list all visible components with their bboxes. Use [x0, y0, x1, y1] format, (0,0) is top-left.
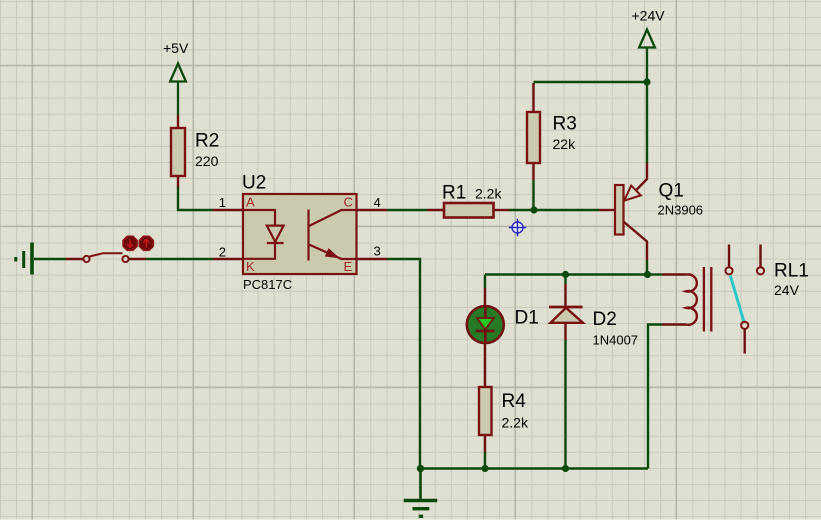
wire relay node row — [485, 273, 648, 275]
U2 pin 1 stub — [213, 209, 243, 211]
ground (left, rotated) — [16, 243, 32, 275]
junction node (ground) — [417, 465, 424, 472]
junction node (R4/rail) — [481, 465, 488, 472]
wire switch to U2 pin 2 — [146, 258, 213, 260]
interactive toggle button (up) — [139, 236, 153, 250]
svg-text:K: K — [246, 259, 255, 274]
svg-text:220: 220 — [195, 153, 219, 169]
switch SW1 right pin — [129, 258, 146, 260]
power +24V arrow — [639, 30, 655, 83]
origin marker (blue crosshair) — [509, 219, 526, 236]
resistor R2 — [171, 128, 185, 176]
relay RL1 common contact — [725, 267, 732, 274]
svg-text:1N4007: 1N4007 — [593, 333, 639, 348]
svg-text:RL1: RL1 — [774, 261, 809, 282]
wire D2 to ground rail — [564, 340, 566, 469]
LED D1 bottom pin to R4 — [484, 342, 486, 387]
relay RL1 core — [704, 267, 711, 332]
U2 pin 4 stub — [357, 209, 388, 211]
transistor Q1 emitter pin — [636, 163, 647, 190]
relay RL1 coil bottom pin — [662, 323, 686, 325]
resistor R1 right pin — [494, 209, 510, 211]
U2 internal phototransistor — [309, 210, 356, 261]
U2 pin 2 stub — [213, 258, 243, 260]
svg-text:2.2k: 2.2k — [502, 415, 529, 431]
relay RL1 moving contact pin — [744, 329, 746, 353]
wire rail up to relay coil — [648, 325, 662, 469]
svg-text:U2: U2 — [242, 173, 266, 194]
junction node (D2/rail) — [562, 465, 569, 472]
resistor R3 bottom pin — [532, 163, 534, 180]
svg-text:2: 2 — [219, 245, 226, 260]
svg-text:R1: R1 — [442, 183, 466, 204]
op-isolator U2 body — [243, 194, 357, 274]
svg-text:1: 1 — [219, 195, 226, 210]
svg-text:4: 4 — [374, 195, 381, 210]
ground symbol — [404, 469, 437, 517]
svg-text:R2: R2 — [195, 131, 219, 152]
svg-text:+5V: +5V — [163, 40, 189, 56]
junction node (D2 top) — [562, 271, 569, 278]
diode D2 — [549, 307, 583, 323]
wire ground to switch — [34, 258, 66, 260]
resistor R1 left pin — [427, 209, 444, 211]
resistor R2 bottom pin — [177, 176, 179, 188]
relay RL1 coil — [686, 274, 697, 324]
transistor Q1 collector pin — [624, 222, 647, 260]
wire R1 to base node — [509, 209, 599, 211]
svg-text:+24V: +24V — [632, 8, 666, 24]
wire U2 pin 3 to left vertical — [387, 259, 420, 469]
relay RL1 moving blade — [730, 276, 744, 322]
diode D2 bottom pin — [564, 324, 566, 340]
resistor R1 — [444, 203, 494, 218]
resistor R3 top pin — [532, 83, 534, 112]
svg-text:D1: D1 — [515, 308, 539, 329]
LED D1 top pin — [484, 288, 486, 306]
svg-text:Q1: Q1 — [659, 181, 684, 202]
svg-text:2N3906: 2N3906 — [658, 203, 704, 218]
junction node (relay coil top) — [644, 271, 651, 278]
wire U2 pin 4 to R1 — [387, 209, 427, 211]
junction node (R3/base) — [530, 206, 537, 213]
relay RL1 NO contact — [757, 267, 764, 274]
resistor R4 — [479, 387, 492, 435]
wire rail down to Q1 emitter — [646, 82, 648, 163]
ground rail (bottom) — [420, 467, 648, 469]
resistor R3 — [527, 112, 540, 163]
resistor R4 bottom pin — [484, 435, 486, 452]
junction node (+24V rail) — [643, 78, 650, 85]
relay RL1 common contact pin — [728, 245, 730, 268]
svg-text:E: E — [344, 259, 353, 274]
U2 internal LED — [244, 210, 284, 259]
U2 pin 3 stub — [357, 258, 388, 260]
relay RL1 moving contact — [741, 322, 748, 329]
wire R3 to base node — [532, 180, 534, 210]
wire R4 to ground rail — [484, 452, 486, 469]
svg-text:PC817C: PC817C — [243, 277, 292, 292]
wire Q1 collector to relay node — [646, 260, 648, 275]
svg-text:22k: 22k — [553, 136, 577, 152]
switch SW1 — [83, 253, 128, 262]
svg-text:R3: R3 — [553, 114, 577, 135]
wire node to D1 — [484, 275, 486, 289]
Q1 base pin stub — [599, 209, 615, 211]
transistor Q1 emitter arrow — [624, 186, 641, 201]
svg-text:R4: R4 — [502, 391, 527, 412]
wire +24V rail to R3 — [534, 81, 648, 83]
wire R2 to U2 pin 1 — [178, 187, 213, 210]
relay RL1 NO contact pin — [759, 245, 761, 268]
svg-text:3: 3 — [374, 244, 381, 259]
svg-text:A: A — [246, 195, 255, 210]
svg-text:D2: D2 — [593, 309, 617, 330]
resistor R2 top pin — [177, 115, 179, 128]
svg-text:2.2k: 2.2k — [475, 186, 502, 202]
relay RL1 coil top pin — [648, 273, 662, 275]
svg-text:C: C — [344, 195, 353, 210]
svg-text:24V: 24V — [774, 282, 800, 298]
interactive toggle button (down) — [123, 236, 137, 250]
LED D1 — [467, 306, 504, 343]
power +5V arrow — [170, 64, 186, 116]
switch SW1 left pin — [66, 258, 83, 260]
transistor Q1 base bar — [615, 185, 624, 235]
diode D2 top pin — [564, 275, 566, 285]
